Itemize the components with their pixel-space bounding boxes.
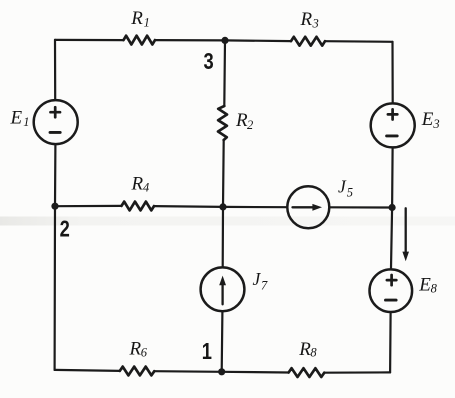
svg-text:1: 1: [202, 339, 212, 365]
node label 1: [202, 339, 212, 365]
label J7: [253, 269, 269, 293]
label R2: [235, 110, 253, 132]
voltage source E8: [370, 269, 413, 312]
wire center junction down to J7: [222, 207, 225, 267]
wire node 2 to R4: [55, 205, 122, 208]
current source J7: [201, 267, 245, 311]
wire R6 to node 1: [154, 370, 221, 373]
resistor R4: [122, 202, 155, 211]
wire E1 to node 2: [54, 145, 57, 206]
wire R1 to node 3: [155, 39, 225, 42]
wire node 1 to R8: [222, 371, 289, 374]
svg-text:E: E: [418, 274, 431, 295]
current source J5: [287, 186, 329, 228]
wire node 3 to R3: [225, 39, 291, 42]
svg-text:7: 7: [261, 279, 268, 293]
svg-text:R: R: [131, 174, 144, 195]
resistor R2: [218, 106, 227, 140]
wire right junction down to E8: [391, 208, 392, 269]
junction dot node 2: [51, 203, 58, 210]
svg-text:4: 4: [143, 181, 149, 195]
resistor R6: [120, 367, 155, 376]
wire R8 to bottom-right corner: [324, 371, 390, 374]
svg-text:8: 8: [431, 282, 438, 296]
current direction arrow near E8: [402, 208, 409, 261]
svg-text:3: 3: [432, 117, 439, 131]
wire bottom-left corner to R6: [55, 370, 120, 371]
svg-text:R: R: [130, 8, 143, 29]
junction dot right middle: [389, 204, 396, 211]
svg-text:2: 2: [60, 216, 70, 242]
svg-text:R: R: [300, 9, 313, 30]
label R4: [131, 174, 150, 195]
voltage source E1: [34, 100, 78, 144]
junction dot center: [219, 203, 226, 210]
svg-text:J: J: [338, 177, 347, 197]
wire R3 to top-right corner: [325, 40, 393, 43]
label E3: [421, 109, 440, 131]
wire J5 to right junction: [330, 206, 392, 208]
node label 2: [60, 216, 70, 242]
wire node 2 to bottom-left corner: [53, 206, 56, 370]
wire R2 to center junction: [222, 140, 225, 207]
label R3: [300, 9, 319, 31]
svg-text:3: 3: [312, 17, 319, 31]
label E8: [418, 274, 437, 295]
label J5: [338, 177, 353, 200]
svg-text:E: E: [10, 107, 23, 128]
label R6: [129, 339, 148, 360]
label R1: [130, 8, 150, 29]
label E1: [10, 107, 30, 129]
voltage source E3: [371, 103, 415, 147]
junction dot node 3: [221, 37, 228, 44]
svg-text:5: 5: [347, 186, 353, 200]
svg-text:2: 2: [247, 118, 253, 132]
wire center junction to J5: [223, 206, 287, 209]
svg-text:1: 1: [23, 115, 29, 129]
svg-text:R: R: [298, 339, 311, 360]
resistor R8: [289, 368, 325, 377]
wire J7 to node 1: [221, 312, 224, 372]
resistor R3: [291, 37, 325, 46]
svg-text:E: E: [421, 109, 434, 130]
resistor R1: [124, 36, 156, 45]
svg-text:1: 1: [144, 16, 150, 30]
svg-text:6: 6: [141, 346, 148, 360]
node label 3: [204, 49, 214, 75]
wire E3 to right junction: [391, 149, 394, 208]
svg-text:3: 3: [204, 49, 214, 75]
wire top-left corner down to E1: [54, 40, 56, 100]
wire E8 to bottom-right corner: [389, 313, 392, 372]
wire node 3 down to R2: [223, 40, 226, 106]
junction dot node 1: [218, 368, 225, 375]
svg-text:R: R: [129, 339, 142, 360]
wire top-right corner down to E3: [391, 42, 393, 103]
wire top-left to R1: [55, 39, 124, 41]
label R8: [298, 339, 317, 360]
wire R4 to center junction: [154, 205, 223, 208]
svg-text:8: 8: [310, 346, 317, 360]
